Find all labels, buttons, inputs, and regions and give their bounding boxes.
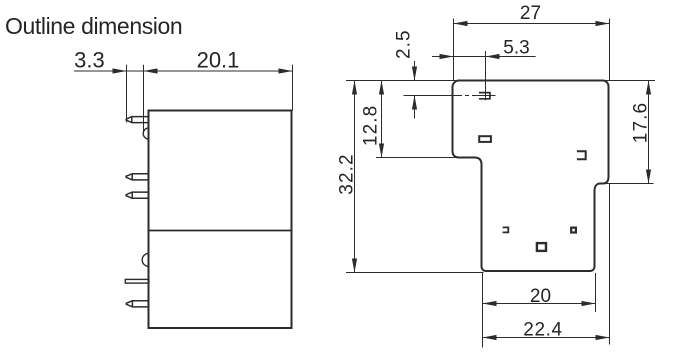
pin 1 (top left pin, side view) [126,117,149,123]
27 extension line right [609,19,611,81]
17.6 dimension line [648,81,650,184]
arrow 5.3 left (right pointing, outside) [440,54,454,59]
extension line 3.3 right / 20.1 left [143,65,145,131]
22.4 dimension line [483,337,610,339]
arrow 17.6 top [646,81,651,95]
2.5 dimension line lower segment + up arrow [414,96,416,119]
20 extension line left (below body) [482,273,484,348]
pin 5 [126,301,149,307]
svg-text:3.3: 3.3 [74,48,105,73]
20 dimension line [483,303,596,305]
svg-text:5.3: 5.3 [503,38,529,59]
2.5 dimension line upper segment + down arrow [414,61,416,80]
arrow 22.4 left [483,335,497,340]
arrow 5.3 right (left pointing, outside) [486,54,500,59]
svg-text:32.2: 32.2 [336,153,357,194]
svg-text:2.5: 2.5 [393,29,414,59]
arrow 22.4 right [596,335,610,340]
arrow 3.3 (right pointing) [113,68,127,73]
top mounting pin (bracket, bottom view) [479,93,490,99]
top edge extension line (long, y=80.5) [346,80,655,82]
pin C (bracket pin) [503,227,509,232]
pin E (small square pin) [571,228,576,233]
27 dimension line [454,23,610,25]
5.3 dimension line [432,56,536,58]
extension line 20.1 right [292,65,294,111]
arrow 32.2 top [352,81,357,95]
arrow 27 right [596,21,610,26]
arrow 20.1 right (right pointing) [279,68,293,73]
20 extension line right [595,273,597,312]
svg-text:22.4: 22.4 [523,319,562,340]
32.2 dimension line [354,81,356,273]
12.8 dimension line [381,81,383,158]
arrow 27 left [454,21,468,26]
arrow 20 right [582,301,596,306]
bump circle lower [142,253,149,266]
2.5 pin centerline extension (horizontal) [404,95,463,97]
svg-text:Outline dimension: Outline dimension [5,13,182,39]
pin 3 [126,192,149,198]
pin A (rect pin) [479,136,491,142]
bump circle upper (side view boss) [143,128,149,139]
svg-text:12.8: 12.8 [360,105,381,146]
pin D (square pin) [537,243,546,251]
pin centerline (dash-dot) [404,95,496,97]
relay body (bottom view outline) [453,81,609,272]
left step extension line (y=157.5) [376,157,464,159]
right step extension line (y=183.5) [602,183,654,185]
svg-text:17.6: 17.6 [631,102,652,143]
arrow 17.6 bottom [646,170,651,184]
pin 2 [126,174,149,180]
extension line at pin tip (3.3 left) [126,65,128,123]
22.4 extension line right (long, from step) [609,184,611,345]
5.3 extension line (pin center) [485,51,487,100]
arrow 20 left [483,301,497,306]
svg-text:27: 27 [520,3,541,24]
27 extension line left [453,19,455,81]
bottom edge extension line (left, y=272.5) [346,272,484,274]
pin B (bracket pin) [577,151,586,159]
dimension line 3.3 / 20.1 [74,70,293,72]
arrow 12.8 top [379,81,384,95]
pin 4 (thin straight pin) [125,279,149,283]
arrow 12.8 bottom [379,144,384,158]
arrow 20.1 left (left pointing) [144,68,158,73]
svg-text:20.1: 20.1 [197,47,240,72]
body divider line [149,230,292,232]
arrow 32.2 bottom [352,259,357,273]
relay body (side view) [149,111,292,329]
svg-text:20: 20 [530,286,551,307]
